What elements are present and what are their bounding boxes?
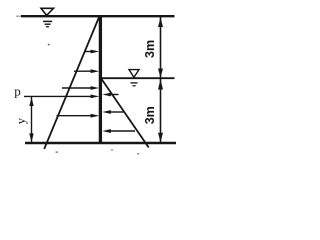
dimension line 3m lower (right) bbox=[158, 79, 163, 143]
pressure arrow right 1 bbox=[102, 93, 118, 97]
dimension line 3m upper (right) bbox=[158, 17, 163, 78]
water surface line left (top free surface) bbox=[16, 15, 175, 17]
pressure arrow p (reference line at depth y) bbox=[24, 95, 99, 99]
retaining wall (central vertical) bbox=[99, 16, 102, 144]
pressure arrow left 4 bbox=[57, 114, 100, 118]
pressure arrow right 2 bbox=[102, 110, 124, 114]
svg-text:3m: 3m bbox=[143, 40, 157, 58]
scan specks below ground line bbox=[48, 44, 139, 155]
pressure arrow left 3 bbox=[62, 86, 99, 90]
pressure arrow left 1 bbox=[85, 50, 99, 54]
free-surface symbol (right nabla) bbox=[129, 70, 139, 86]
free-surface symbol (left nabla) bbox=[41, 8, 54, 26]
pressure arrow left 2 bbox=[74, 69, 99, 73]
bottom ground line bbox=[25, 142, 176, 145]
svg-text:3m: 3m bbox=[143, 106, 157, 124]
water surface line right (middle free surface) bbox=[101, 77, 175, 79]
svg-text:p: p bbox=[14, 83, 21, 98]
pressure triangle hypotenuse right bbox=[102, 79, 149, 148]
dimension line y (left) bbox=[29, 97, 33, 143]
svg-text:y: y bbox=[14, 117, 28, 124]
pressure triangle hypotenuse left bbox=[44, 16, 99, 149]
pressure arrow right 3 bbox=[102, 129, 135, 133]
